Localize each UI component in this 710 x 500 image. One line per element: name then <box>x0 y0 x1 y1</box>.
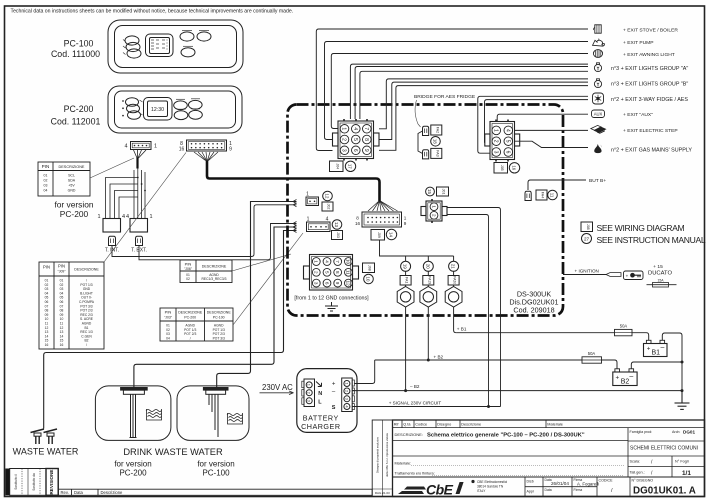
svg-text:9: 9 <box>229 147 232 153</box>
wire fridge 2 <box>485 100 589 143</box>
wire fan CN-A <box>134 150 147 158</box>
svg-text:REC1/3_REC3/3: REC1/3_REC3/3 <box>202 277 227 281</box>
svg-text:12:30: 12:30 <box>151 107 164 113</box>
svg-text:for version: for version <box>197 460 234 469</box>
svg-text:Trattamento e/o finitura:: Trattamento e/o finitura: <box>395 472 435 476</box>
connector J04 <box>333 119 380 161</box>
svg-text:Descrizione: Descrizione <box>101 490 124 495</box>
connector GND 12 pin <box>304 255 359 291</box>
wire lights B 3 <box>379 86 588 151</box>
circle 11 <box>548 190 558 200</box>
svg-text:+5V: +5V <box>68 184 75 188</box>
svg-text:A. Fogarelli: A. Fogarelli <box>577 482 599 487</box>
svg-text:SCHEMI ELETTRICI COMUNI: SCHEMI ELETTRICI COMUNI <box>630 446 698 452</box>
icon electric step <box>591 125 606 133</box>
fuse stack 3 label FA20 <box>448 276 459 286</box>
revision black tab <box>5 469 9 496</box>
svg-text:Sostituito da: Sostituito da <box>32 473 36 491</box>
svg-text:+ SIGNAL 230V CIRCUIT: + SIGNAL 230V CIRCUIT <box>389 400 442 405</box>
svg-text:6: 6 <box>505 151 511 154</box>
svg-text:Rev.: Rev. <box>61 490 69 495</box>
svg-text:+ EXIT AWNING LIGHT: + EXIT AWNING LIGHT <box>623 52 675 58</box>
svg-text:4: 4 <box>126 214 129 220</box>
wire sensor T.EXT to J03 <box>139 224 297 260</box>
wire ignition <box>563 274 606 276</box>
fuse FA4 <box>525 191 531 200</box>
svg-text:1: 1 <box>341 127 347 130</box>
svg-text:12: 12 <box>346 281 351 287</box>
svg-text:FA20: FA20 <box>453 276 457 284</box>
svg-text:10: 10 <box>346 259 351 265</box>
wire BUT B+ <box>528 180 586 190</box>
svg-text:7: 7 <box>363 127 369 130</box>
arrow into J02 <box>293 200 297 204</box>
svg-text:–: – <box>661 345 665 352</box>
svg-text:PC-200: PC-200 <box>60 209 89 219</box>
svg-text:CbE: CbE <box>426 482 454 498</box>
charger connector out <box>342 378 355 412</box>
svg-text:FA1: FA1 <box>405 277 409 283</box>
svg-text:1: 1 <box>314 260 319 263</box>
svg-text:DG01UK01. A: DG01UK01. A <box>633 486 696 497</box>
svg-text:J08: J08 <box>368 265 372 271</box>
leader table J06 <box>232 254 291 271</box>
waste water probe 2 <box>44 429 58 444</box>
connector CN-B 16 pin panel <box>187 140 227 151</box>
svg-text:PC-100: PC-100 <box>202 469 230 478</box>
label box J08 see wiring <box>581 222 593 232</box>
svg-text:1: 1 <box>307 217 310 223</box>
svg-text:15: 15 <box>427 189 432 194</box>
wire lights A 1 <box>350 64 588 119</box>
svg-text:15A: 15A <box>657 279 664 283</box>
svg-text:02: 02 <box>186 277 190 281</box>
fuse stack 1 circle 19 <box>401 261 411 271</box>
wire signal <box>352 406 501 408</box>
titleblock parts header row <box>393 420 705 428</box>
svg-text:230V AC: 230V AC <box>262 383 293 392</box>
wire fuse2 drop <box>427 256 429 360</box>
svg-text:Disegno: Disegno <box>437 422 451 426</box>
svg-text:16: 16 <box>355 221 361 226</box>
svg-text:+ EXIT PUMP: + EXIT PUMP <box>623 40 654 46</box>
svg-text:01: 01 <box>186 273 190 277</box>
charger connector mains <box>302 379 315 407</box>
svg-text:J02: J02 <box>327 204 331 210</box>
svg-text:J08: J08 <box>586 224 590 230</box>
icon gas flame <box>594 144 602 153</box>
svg-text:DESCRIZIONE: DESCRIZIONE <box>178 311 203 315</box>
ground symbol battery rail <box>675 391 690 410</box>
circle 18 bridge <box>431 137 441 147</box>
wire aux <box>497 114 588 121</box>
svg-text:2: 2 <box>341 138 347 141</box>
svg-text:Scala:: Scala: <box>630 460 641 464</box>
wire waste water to J03 <box>44 231 297 429</box>
svg-text:+: + <box>626 274 629 279</box>
svg-text:6: 6 <box>324 282 329 285</box>
svg-text:+ 15: + 15 <box>653 264 663 270</box>
wire fan J09 <box>368 201 398 211</box>
wire tank PC-100 to J02 <box>217 202 297 388</box>
connector T-A <box>103 219 121 233</box>
fuse stack 3 gland <box>445 287 462 308</box>
svg-text:38014 Gardolo TN: 38014 Gardolo TN <box>477 485 504 489</box>
svg-text:1: 1 <box>154 144 157 150</box>
titleblock bottom row <box>393 476 705 478</box>
svg-text:Cod. 209018: Cod. 209018 <box>513 306 554 315</box>
svg-text:3: 3 <box>314 282 319 285</box>
svg-text:PIN: PIN <box>43 265 50 270</box>
feeder bus to fuses <box>380 241 454 257</box>
junction dot fuse2 B2 <box>427 359 430 362</box>
wire lights B 1 <box>379 79 588 129</box>
connector T-B <box>130 219 148 233</box>
svg-text:20: 20 <box>425 264 430 269</box>
svg-text:PIN: PIN <box>42 164 50 169</box>
svg-text:4: 4 <box>122 214 125 220</box>
svg-text:SCL: SCL <box>68 174 75 178</box>
arrow charger <box>316 382 322 387</box>
battery B2 <box>613 369 637 386</box>
svg-text:S: S <box>332 405 336 411</box>
svg-text:Disb: Disb <box>527 480 534 484</box>
wire lights A 3 <box>360 71 588 119</box>
leader table J03 <box>233 233 303 325</box>
svg-text:FA4: FA4 <box>541 192 545 198</box>
wire fuse1 drop <box>405 256 407 391</box>
svg-text:–: – <box>629 374 633 381</box>
svg-text:1: 1 <box>306 192 309 198</box>
svg-text:16: 16 <box>60 343 64 347</box>
icon fridge <box>593 93 604 104</box>
circle 14 <box>386 229 396 239</box>
svg-text:"J03": "J03" <box>164 315 173 319</box>
svg-text:16: 16 <box>179 147 185 153</box>
bridge jumper wire <box>418 131 423 154</box>
icon bulb A <box>594 63 601 72</box>
svg-text:Cod. 112001: Cod. 112001 <box>51 117 101 127</box>
junction dot fuse1 minus <box>404 389 407 392</box>
connector J05 <box>485 120 520 162</box>
svg-text:8: 8 <box>363 138 369 141</box>
wire charger plus <box>355 360 375 384</box>
wire +B2 <box>375 360 617 369</box>
svg-text:J01: J01 <box>442 189 446 195</box>
icon awning light <box>593 50 602 58</box>
svg-text:AUX: AUX <box>594 112 603 117</box>
svg-text:n°3 + EXIT LIGHTS GROUP "B": n°3 + EXIT LIGHTS GROUP "B" <box>611 82 688 88</box>
junction dot rail B2minus <box>681 361 684 364</box>
svg-text:+ EXIT ELECTRIC STEP: + EXIT ELECTRIC STEP <box>623 128 678 134</box>
svg-text:B2: B2 <box>621 379 630 386</box>
svg-text:50A: 50A <box>588 351 596 356</box>
junction dot rail minus <box>681 389 684 392</box>
label box J02 <box>322 202 333 211</box>
label box J01 <box>437 187 449 196</box>
circle 27 <box>582 234 592 244</box>
svg-text:1: 1 <box>97 214 100 220</box>
titleblock frame <box>393 420 705 497</box>
wire B2 minus to rail <box>631 362 682 369</box>
svg-text:[from 1 to 12 GND connections]: [from 1 to 12 GND connections] <box>294 296 369 302</box>
svg-text:BUT B+: BUT B+ <box>589 178 606 184</box>
svg-text:RAG 21.03: RAG 21.03 <box>375 491 390 495</box>
svg-text:Famiglia prod:: Famiglia prod: <box>630 430 653 434</box>
svg-text:+ EXIT "AUX": + EXIT "AUX" <box>623 112 653 118</box>
svg-text:4: 4 <box>324 260 329 263</box>
svg-text:J09: J09 <box>377 232 381 238</box>
fuse stack 2 label FA19 <box>423 276 434 286</box>
svg-text:DG01: DG01 <box>683 430 695 435</box>
svg-text:for version: for version <box>114 460 151 469</box>
svg-text:Data: Data <box>74 490 84 495</box>
svg-text:/: / <box>86 343 87 347</box>
svg-text:PIN: PIN <box>165 310 172 315</box>
wire +B1 <box>456 333 649 341</box>
svg-text:+: + <box>615 375 619 382</box>
wire charger S <box>352 406 355 408</box>
control panel PC-200 <box>108 86 242 133</box>
circle 16 <box>509 163 519 173</box>
icon exit pump <box>592 39 604 46</box>
wire charger minus <box>352 390 355 392</box>
battery charger box <box>297 369 357 433</box>
svg-text:11: 11 <box>550 193 555 198</box>
svg-text:PC-100: PC-100 <box>64 39 94 49</box>
svg-text:8: 8 <box>335 271 340 274</box>
svg-text:9: 9 <box>363 149 369 152</box>
fuse 15A <box>647 279 677 288</box>
svg-text:7: 7 <box>335 260 340 263</box>
pin table J09 <box>39 262 104 349</box>
svg-text:Materiale:: Materiale: <box>395 462 412 466</box>
label box J08 gnd <box>363 263 375 273</box>
svg-text:Tall.gen.:: Tall.gen.: <box>630 471 645 475</box>
titleblock signature cells <box>525 477 630 497</box>
svg-text:3: 3 <box>341 149 347 152</box>
revision bottom strip <box>58 489 372 495</box>
arrow 230V <box>260 391 294 395</box>
fuse stack 2 circle 20 <box>423 261 433 271</box>
connector J02 <box>306 197 319 206</box>
svg-text:SDA: SDA <box>68 179 76 183</box>
wire B1 minus to rail <box>662 333 682 402</box>
svg-text:03: 03 <box>44 184 48 188</box>
connector J09 <box>362 212 402 227</box>
svg-text:CHARGER: CHARGER <box>301 422 340 431</box>
svg-text:N: N <box>318 391 322 397</box>
svg-text:12: 12 <box>325 194 330 199</box>
svg-text:11: 11 <box>346 270 351 275</box>
sensor T.EXT. <box>136 236 143 245</box>
svg-text:PC-200: PC-200 <box>64 104 94 114</box>
wires CN-A to T connectors <box>106 169 146 219</box>
svg-text:5: 5 <box>505 140 511 143</box>
fuse stack 1 label FA1 <box>400 276 411 286</box>
wire lights B 2 <box>379 82 588 139</box>
battery B1 <box>644 340 668 356</box>
label box J09 <box>371 230 385 241</box>
svg-text:4: 4 <box>505 129 511 132</box>
titleblock descrizione row <box>393 440 629 442</box>
tank drink PC-100 <box>177 386 249 441</box>
svg-text:della CBE S.n.c. riproduzione: della CBE S.n.c. riproduzione vietata <box>385 433 389 477</box>
svg-text:+ B2: + B2 <box>434 354 444 359</box>
svg-text:27: 27 <box>584 236 590 241</box>
fuse 50A B1 <box>615 329 633 335</box>
connector J01 <box>421 199 447 223</box>
icon exit stove <box>594 25 602 33</box>
titleblock materiale row <box>393 455 705 457</box>
circle 15 <box>426 187 435 196</box>
svg-text:SEE WIRING DIAGRAM: SEE WIRING DIAGRAM <box>597 223 685 233</box>
wire tank PC-200 to J03 <box>134 227 297 388</box>
svg-text:14: 14 <box>389 232 394 237</box>
svg-text:+ B1: + B1 <box>457 327 467 332</box>
cable CN-B to enclosure <box>207 161 380 202</box>
svg-text:"J06": "J06" <box>184 267 193 271</box>
tank drink PC-200 <box>95 386 170 441</box>
svg-text:26/01/04: 26/01/04 <box>551 481 569 486</box>
svg-text:9: 9 <box>335 282 340 285</box>
svg-text:4: 4 <box>124 144 127 150</box>
fuse FA3 <box>423 150 429 159</box>
svg-text:5: 5 <box>352 138 358 141</box>
svg-text:16: 16 <box>45 343 49 347</box>
svg-text:DESCRIZIONE: DESCRIZIONE <box>207 311 232 315</box>
wire lights A 2 <box>355 67 588 120</box>
fuse stack 2 gland <box>420 287 437 308</box>
probe tank PC-200 <box>121 388 148 438</box>
svg-text:01: 01 <box>44 174 48 178</box>
label box J04 <box>330 161 344 172</box>
svg-text:Technical data on instructions: Technical data on instructions sheets ca… <box>11 9 294 15</box>
svg-text:GND: GND <box>68 189 76 193</box>
svg-text:18: 18 <box>433 139 438 144</box>
svg-text:Appr: Appr <box>527 490 535 494</box>
key symbol <box>624 271 644 280</box>
wire exit pump <box>325 42 589 140</box>
label box J03 <box>332 231 343 240</box>
fuse stack 1 gland <box>397 287 414 308</box>
svg-text:n°2 + EXIT GAS MAINS' SUPPLY: n°2 + EXIT GAS MAINS' SUPPLY <box>611 148 692 154</box>
wire exit awning <box>331 54 588 129</box>
svg-text:Schema elettrico generale "PC-: Schema elettrico generale "PC-100 – PC-2… <box>427 433 585 439</box>
svg-text:8: 8 <box>356 216 359 221</box>
circle 12 <box>323 191 333 201</box>
svg-text:N° DISEGNO: N° DISEGNO <box>632 479 654 483</box>
pin table CN-A <box>38 162 90 196</box>
wire electric step <box>515 129 589 131</box>
wire fuse3 drop <box>454 256 457 333</box>
wire J01 pin2 to signal <box>447 215 489 407</box>
svg-text:5: 5 <box>324 271 329 274</box>
svg-text:19: 19 <box>403 264 408 269</box>
svg-text:1: 1 <box>404 216 407 221</box>
label box J05 <box>494 163 508 174</box>
fuse stack 3 circle 21 <box>449 261 459 271</box>
svg-text:02: 02 <box>44 179 48 183</box>
svg-text:Sostituito il: Sostituito il <box>14 474 18 490</box>
svg-text:Q.tà: Q.tà <box>403 422 411 426</box>
svg-text:DRINK WASTE WATER: DRINK WASTE WATER <box>123 447 223 457</box>
connector CN-A 4 pin panel <box>131 142 152 150</box>
svg-text:2: 2 <box>314 271 319 274</box>
wire exit stove <box>316 29 588 151</box>
svg-text:17: 17 <box>348 164 353 169</box>
svg-text:Descrizione: Descrizione <box>461 422 481 426</box>
enclosure DS-300UK dash-dot box <box>288 105 564 316</box>
pin table J06 <box>180 260 232 283</box>
svg-text:AGND: AGND <box>209 273 219 277</box>
svg-text:PIN: PIN <box>58 264 65 269</box>
control panel PC-100 <box>108 20 243 73</box>
arrows into J03 <box>293 222 297 226</box>
svg-text:BRIDGE FOR AES FRIDGE: BRIDGE FOR AES FRIDGE <box>414 94 476 100</box>
svg-text:REVISIONE: REVISIONE <box>49 469 54 494</box>
svg-text:Codice: Codice <box>415 422 427 426</box>
wire -B2 <box>352 390 682 392</box>
svg-text:DUCATO: DUCATO <box>648 271 672 277</box>
pin table J03 <box>160 308 233 341</box>
svg-text:4: 4 <box>352 127 358 130</box>
svg-text:04: 04 <box>166 336 170 340</box>
svg-text:ITALY: ITALY <box>477 489 486 493</box>
circle 17 <box>345 161 355 171</box>
svg-text:+ EXIT STOVE / BOILER: + EXIT STOVE / BOILER <box>623 28 678 34</box>
svg-text:J05: J05 <box>500 165 504 171</box>
leader bridge <box>415 100 420 127</box>
svg-text:n°3 + EXIT LIGHTS GROUP "A": n°3 + EXIT LIGHTS GROUP "A" <box>611 66 688 72</box>
svg-text:10: 10 <box>366 277 371 282</box>
svg-text:J03: J03 <box>336 232 340 238</box>
sensor T.INT. <box>109 236 116 245</box>
icon aux <box>592 110 605 118</box>
svg-text:PC-200: PC-200 <box>184 315 196 319</box>
svg-text:21: 21 <box>451 264 456 269</box>
junction dot signal <box>487 405 490 408</box>
svg-text:1: 1 <box>149 214 152 220</box>
titleblock scala cells <box>628 456 705 477</box>
wire fan CN-B <box>194 152 218 161</box>
svg-text:"J09": "J09" <box>58 270 67 274</box>
circle 10 <box>364 274 374 284</box>
svg-text:50A: 50A <box>620 323 628 328</box>
svg-text:SEE INSTRUCTION MANUAL: SEE INSTRUCTION MANUAL <box>597 235 706 245</box>
svg-text:1: 1 <box>431 205 436 208</box>
revision left box <box>10 469 59 496</box>
arrow ignition <box>606 273 621 277</box>
svg-text:DESCRIZIONE: DESCRIZIONE <box>59 165 85 169</box>
svg-text:16: 16 <box>512 165 517 170</box>
svg-text:9: 9 <box>404 221 407 226</box>
fuse 50A B2 <box>582 357 602 363</box>
svg-text:PC-100: PC-100 <box>213 315 225 319</box>
svg-text:CBE Elettrodomestici: CBE Elettrodomestici <box>477 480 507 484</box>
svg-text:DESCRIZIONE: DESCRIZIONE <box>202 265 227 269</box>
svg-text:Arch:: Arch: <box>672 430 680 434</box>
waste water probe 1 <box>31 429 45 444</box>
CBE logo <box>398 482 464 498</box>
svg-text:6: 6 <box>352 149 358 152</box>
svg-text:POT 3/3: POT 3/3 <box>213 336 225 340</box>
svg-text:– B2: – B2 <box>410 384 420 389</box>
svg-text:04: 04 <box>44 189 48 193</box>
svg-text:PIN: PIN <box>185 262 192 267</box>
wire fridge 1 <box>478 96 588 153</box>
leader table J09 <box>104 153 186 263</box>
